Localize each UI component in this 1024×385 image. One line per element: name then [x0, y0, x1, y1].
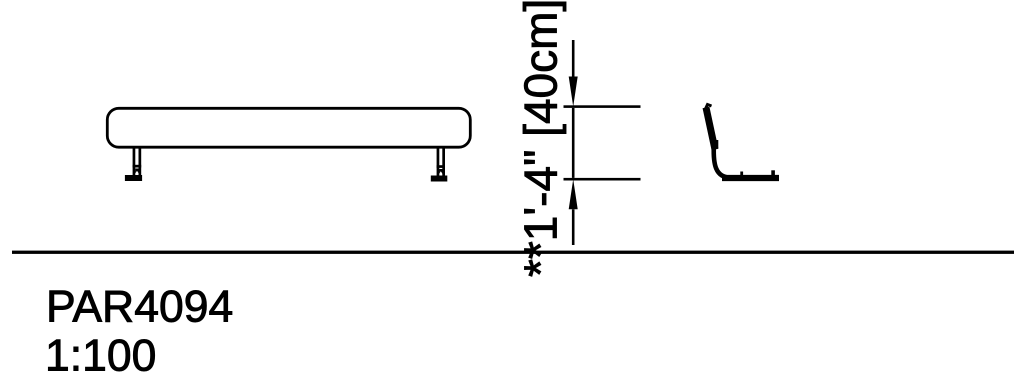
dimension arrow down	[569, 77, 578, 107]
right leg crossbar	[437, 165, 445, 168]
left leg bolt mark	[135, 169, 139, 174]
end-profile leg curve	[714, 147, 731, 178]
left leg crossbar	[133, 165, 142, 168]
dimension extension line lower (below bottom arrow)	[572, 209, 575, 245]
left foot plate	[125, 175, 142, 181]
bench seat slab (side view rounded rectangle)	[107, 108, 470, 147]
svg-text:PAR4094: PAR4094	[46, 282, 233, 331]
dimension tick top	[564, 105, 641, 108]
right leg rear line	[442, 148, 445, 176]
right leg front line	[437, 148, 440, 176]
dimension line between ticks	[572, 108, 575, 178]
ground line	[12, 251, 1014, 254]
end-profile fixing tick middle	[740, 172, 743, 177]
left leg rear line	[139, 148, 142, 176]
left leg front line	[133, 148, 136, 176]
dimension tick bottom	[564, 178, 641, 181]
right foot plate	[431, 176, 448, 182]
end-profile seat plank (tilted thick bar)	[706, 108, 715, 150]
svg-text:**1'-4" [40cm]: **1'-4" [40cm]	[515, 0, 567, 277]
right leg bolt mark	[439, 169, 443, 174]
end-profile foot bar	[722, 175, 779, 181]
svg-text:1:100: 1:100	[45, 331, 156, 380]
dimension extension line upper (above top arrow)	[572, 40, 575, 77]
end-profile fixing tick right	[771, 170, 775, 176]
dimension arrow up	[569, 179, 578, 209]
end-profile bracket step	[715, 140, 719, 148]
end-profile plank top cap	[705, 105, 712, 112]
